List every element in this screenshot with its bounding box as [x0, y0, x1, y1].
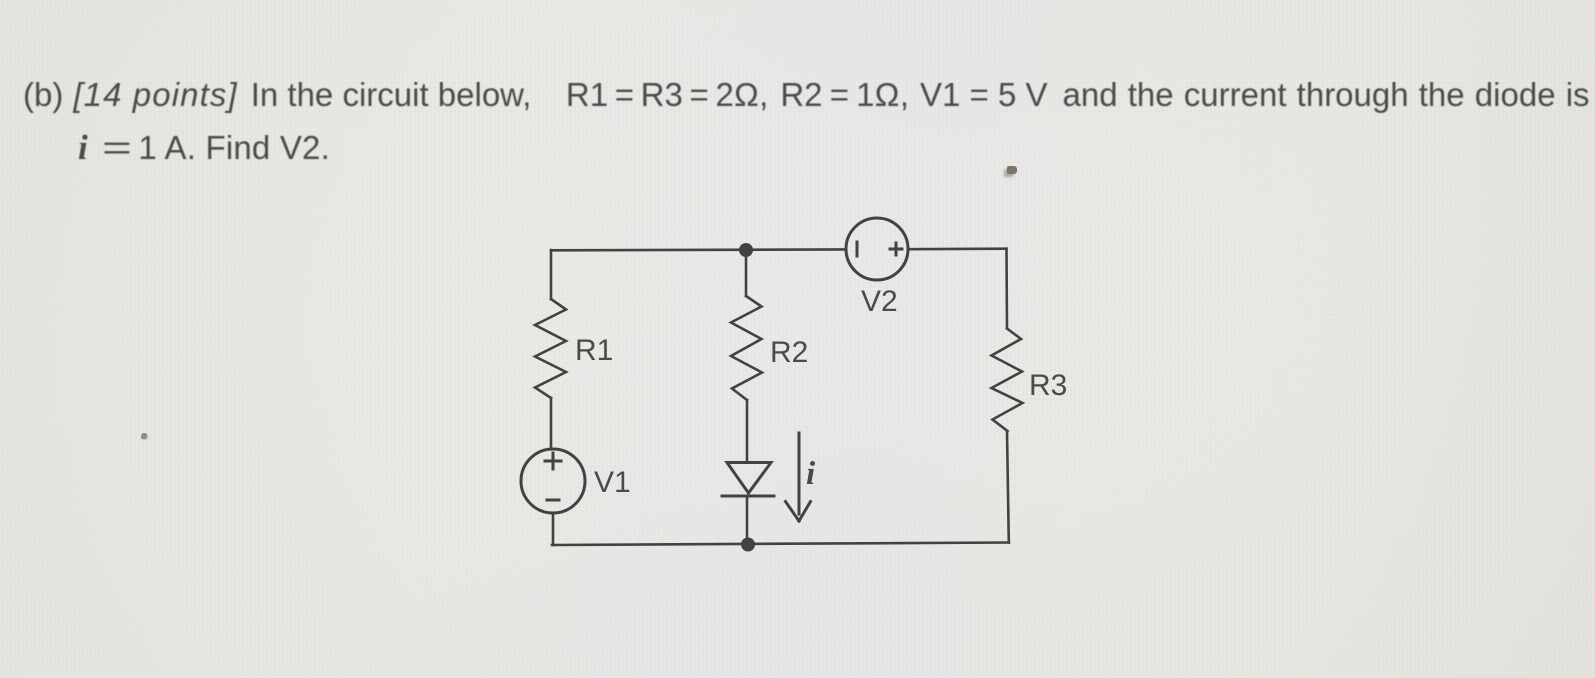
diode D1	[727, 463, 771, 494]
wire below V1	[552, 513, 555, 545]
svg-text:R1: R1	[575, 334, 613, 367]
wire right rail upper	[1005, 249, 1008, 329]
problem text line 1	[23, 76, 1590, 114]
wire top rail right segment	[908, 247, 1007, 250]
photo artifact speck left area	[141, 433, 147, 439]
wire diode to bottom	[746, 496, 749, 545]
wire middle rail to diode	[746, 400, 749, 462]
diode cathode bar	[722, 495, 774, 498]
junction node top	[739, 243, 753, 257]
svg-text:V2: V2	[861, 285, 898, 318]
wire middle rail upper	[745, 250, 748, 296]
resistor R1	[535, 299, 566, 398]
V2 plus sign	[890, 243, 902, 255]
V1 minus sign	[547, 499, 559, 502]
svg-text:i: i	[806, 456, 816, 492]
svg-text:R2: R2	[770, 336, 808, 369]
wire right rail lower	[1007, 431, 1009, 543]
junction node bottom	[741, 538, 755, 552]
V2 minus bar	[856, 242, 859, 256]
wire left rail upper	[550, 250, 553, 299]
voltage source V1	[521, 449, 585, 513]
problem text line 2	[78, 128, 330, 168]
wire bottom rail	[552, 543, 1009, 546]
voltage source V2	[846, 218, 908, 280]
V1 plus sign	[545, 453, 561, 469]
svg-text:V1: V1	[594, 466, 631, 499]
current arrow i	[786, 433, 811, 521]
wire left rail lower	[550, 398, 553, 449]
resistor R3	[992, 329, 1023, 432]
svg-text:R3: R3	[1029, 369, 1067, 402]
photo artifact speck near top of circuit	[1007, 166, 1017, 174]
wire top rail left segment	[551, 248, 846, 252]
resistor R2	[731, 296, 762, 400]
